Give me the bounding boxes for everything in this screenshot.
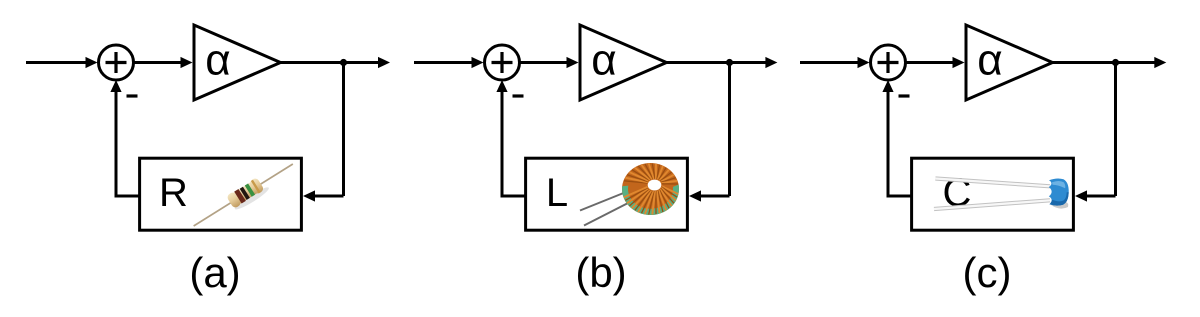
op-amp triangle A2 (b) <box>580 25 667 100</box>
resistor lead wire <box>194 164 293 226</box>
wire: node down to feedback (b) <box>728 63 731 197</box>
wire: feedback up to summer (b) <box>501 91 504 198</box>
wire: box left out (b) <box>502 195 526 198</box>
svg-text:(b): (b) <box>575 249 626 296</box>
summing junction circle (a) <box>99 45 134 80</box>
wire: summer to amplifier (b) <box>520 61 569 64</box>
capacitor blue disc body <box>1049 179 1069 206</box>
wire: input line into summer (c) <box>800 61 859 64</box>
svg-text:α: α <box>205 36 230 85</box>
plus sign in summer (c) <box>878 52 899 73</box>
svg-text:α: α <box>977 36 1002 85</box>
op-amp triangle A1 (a) <box>194 25 281 100</box>
svg-text:(a): (a) <box>189 249 240 296</box>
resistor band 3 green <box>245 183 255 196</box>
arrowhead: output arrow (b) <box>765 57 777 68</box>
node junction dot (b) <box>726 59 733 66</box>
wire: feedback into box right (c) <box>1086 195 1116 198</box>
feedback box R (a) <box>140 158 302 230</box>
summing junction circle (b) <box>485 45 520 80</box>
arrowhead: into summer bottom (b) <box>496 80 507 92</box>
resistor end cap left <box>226 191 242 209</box>
wire: node down to feedback (a) <box>342 63 345 197</box>
arrowhead: into box C (c) <box>1075 190 1087 201</box>
minus sign label (c) <box>899 94 910 97</box>
arrowhead: output arrow (c) <box>1154 57 1166 68</box>
plus sign in summer (b) <box>492 52 513 73</box>
wire: box left out (a) <box>116 195 140 198</box>
resistor band 1 brown <box>234 189 246 204</box>
toroid hole <box>648 180 662 191</box>
arrowhead: output arrow (a) <box>378 57 390 68</box>
resistor photo (a) <box>189 157 298 235</box>
resistor shadow <box>233 185 271 212</box>
arrowhead: into box L (b) <box>689 190 701 201</box>
wire: amplifier to output (a) <box>281 61 380 64</box>
resistor band 4 gold <box>251 180 261 193</box>
capacitor lead top <box>935 179 1050 187</box>
wire: summer to amplifier (a) <box>134 61 183 64</box>
arrowhead: into summer bottom (a) <box>110 80 121 92</box>
wire: amplifier to output (b) <box>667 61 767 64</box>
resistor end cap right <box>248 177 264 195</box>
capacitor body dark shade <box>1050 192 1069 205</box>
resistor band 2 black <box>240 187 250 200</box>
capacitor shadow <box>1051 202 1068 209</box>
wire: input line into summer (b) <box>414 61 473 64</box>
inductor lead 2 <box>584 201 632 226</box>
wire: feedback into box right (b) <box>700 195 730 198</box>
wire: node down to feedback (c) <box>1114 63 1117 197</box>
arrowhead: input arrow (a) <box>86 57 98 68</box>
minus sign label (b) <box>513 94 524 97</box>
feedback box C (c) <box>912 158 1074 230</box>
arrowhead: into amplifier (a) <box>181 57 193 68</box>
svg-text:R: R <box>159 171 188 215</box>
capacitor body highlight <box>1052 181 1065 188</box>
wire: feedback up to summer (c) <box>887 91 890 198</box>
arrowhead: input arrow (c) <box>858 57 870 68</box>
svg-text:(c): (c) <box>963 249 1012 296</box>
toroid green core band <box>622 185 679 216</box>
arrowhead: into summer bottom (c) <box>882 80 893 92</box>
wire: input line into summer (a) <box>26 61 87 64</box>
feedback box L (b) <box>526 158 688 230</box>
wire: feedback up to summer (a) <box>115 91 118 198</box>
node junction dot (c) <box>1112 59 1119 66</box>
wire: summer to amplifier (c) <box>906 61 955 64</box>
inductor photo (b) <box>580 163 679 226</box>
wire: box left out (c) <box>888 195 912 198</box>
resistor body waist <box>228 179 262 207</box>
arrowhead: into amplifier (c) <box>953 57 965 68</box>
inductor lead 1 <box>580 192 626 211</box>
wire: amplifier to output (c) <box>1053 61 1156 64</box>
toroid body base <box>622 163 679 215</box>
svg-text:α: α <box>591 36 616 85</box>
toroid winding stripes <box>624 164 678 215</box>
svg-text:L: L <box>546 171 568 215</box>
plus sign in summer (a) <box>106 52 127 73</box>
wire: feedback into box right (a) <box>314 195 344 198</box>
arrowhead: input arrow (b) <box>472 57 484 68</box>
node junction dot (a) <box>340 59 347 66</box>
op-amp triangle A3 (c) <box>966 25 1053 100</box>
summing junction circle (c) <box>871 45 906 80</box>
capacitor lead bottom <box>934 200 1050 209</box>
minus sign label (a) <box>127 94 138 97</box>
arrowhead: into box R (a) <box>303 190 315 201</box>
capacitor photo (c) <box>934 179 1069 210</box>
arrowhead: into amplifier (b) <box>567 57 579 68</box>
